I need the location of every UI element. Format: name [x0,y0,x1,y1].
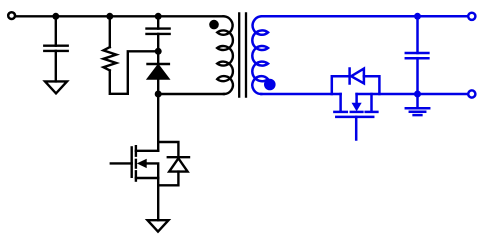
wire R1 top lead [109,16,111,47]
node clamp [155,48,162,55]
transistor Q1 [111,146,158,180]
wire secondary top rail [262,15,468,18]
node snubber cap top [155,13,162,20]
capacitor C1 [44,46,67,51]
node switch [155,91,162,98]
wire bottom rail right piece [357,93,468,96]
ground input [45,81,67,93]
transformer T1 secondary winding [252,16,268,94]
wire C2 top lead [157,16,159,28]
transistor Q2 [334,94,377,140]
node resistor junction [106,13,113,20]
wire C2 bottom lead [157,34,159,51]
wire D2 anode lead [158,172,178,186]
wire switch node down [157,94,159,151]
ground power [148,220,169,231]
wire top rail [16,15,223,17]
output terminal plus [468,13,475,20]
node output cap top [414,13,421,20]
resistor R1 [103,47,116,70]
wire D1 anode lead [157,79,159,94]
wire switch node rail [158,93,224,95]
polarity dot secondary [264,79,276,91]
diode D1 [147,64,170,79]
ground output earth [406,94,429,115]
node output cap bottom [414,91,421,98]
wire R1 bottom to clamp node [110,51,158,94]
input terminal [8,12,15,19]
wire C3 bottom lead [416,58,419,94]
capacitor C2 [147,29,170,34]
output terminal minus [468,90,475,97]
wire C1 top lead [55,16,57,45]
wire D1 cathode lead [157,51,159,64]
transformer core [239,13,246,96]
wire C1 bottom lead [55,51,57,82]
transformer T1 primary winding [217,16,233,94]
polarity dot primary [209,20,219,30]
wire bottom rail left piece [261,93,340,96]
diode D3 [332,69,380,95]
wire drain to Q1 [136,150,158,152]
wire C3 top lead [416,16,419,53]
diode D2 body diode [168,157,189,171]
wire source down [157,178,159,220]
capacitor C3 [406,53,429,58]
wire drain branch to body diode [158,142,178,157]
node input cap junction [52,13,59,20]
